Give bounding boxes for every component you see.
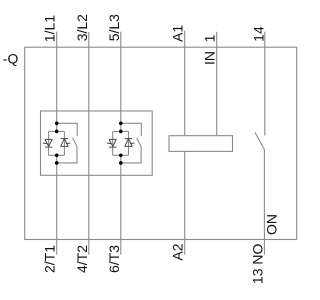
device outline box -Q — [25, 47, 297, 239]
node dot phase1 top — [55, 122, 59, 126]
wire 14 — [264, 32, 266, 136]
wire 13 — [263, 150, 265, 255]
phase3 bypass contact blade — [137, 138, 141, 147]
thyristor V3 (phase3 left, down) — [107, 139, 117, 147]
svg-text:IN: IN — [202, 51, 218, 65]
svg-text:-Q: -Q — [3, 50, 19, 66]
phase1 left branch wire — [48, 131, 50, 155]
node dot phase3 rect bottom — [119, 154, 123, 158]
phase3 bypass wire upper — [121, 123, 142, 136]
svg-text:13 NO: 13 NO — [249, 243, 265, 284]
svg-text:A1: A1 — [170, 25, 186, 42]
phase1 right branch wire — [63, 131, 65, 155]
phase3 left branch wire — [112, 131, 114, 155]
phase1 bypass wire lower — [57, 147, 77, 163]
wire A1 — [184, 31, 186, 136]
svg-text:6/T3: 6/T3 — [106, 245, 122, 273]
node dot phase3 rect top — [119, 130, 123, 134]
thyristor V2 (phase1 right, up) — [61, 139, 71, 147]
wire L2 — [88, 32, 90, 255]
phase1 bypass wire upper — [57, 123, 77, 136]
svg-text:ON: ON — [264, 214, 280, 235]
node dot phase1 rect bottom — [55, 154, 59, 158]
phase3 thyristor top bar — [113, 130, 129, 132]
svg-text:14: 14 — [251, 26, 267, 42]
node dot phase3 top — [119, 122, 123, 126]
node dot phase1 bottom — [55, 161, 59, 165]
contact ON blade (13-14) — [255, 132, 264, 149]
wire L3 lower — [120, 155, 122, 254]
coil U1 (control unit) — [169, 136, 233, 152]
thyristor V4 (phase3 right, up) — [125, 139, 135, 147]
phase1 thyristor top bar — [49, 130, 65, 132]
phase1 bypass contact blade — [73, 138, 77, 147]
thyristor module box — [41, 111, 153, 175]
wire A2 — [184, 151, 186, 254]
svg-text:4/T2: 4/T2 — [74, 245, 90, 273]
phase3 thyristor bottom bar — [113, 154, 129, 156]
svg-text:2/T1: 2/T1 — [42, 245, 58, 273]
phase1 thyristor bottom bar — [49, 154, 65, 156]
phase3 bypass wire lower — [121, 147, 141, 163]
wire L1 lower — [56, 155, 58, 254]
svg-text:1/L1: 1/L1 — [42, 15, 58, 42]
wire L1 upper — [56, 32, 58, 132]
svg-text:A2: A2 — [170, 243, 186, 260]
thyristor V1 (phase1 left, down) — [43, 139, 53, 147]
wire L3 upper — [120, 32, 122, 132]
wire IN — [216, 32, 218, 136]
node dot phase3 bottom — [119, 161, 123, 165]
node dot phase1 rect top — [55, 130, 59, 134]
svg-text:3/L2: 3/L2 — [74, 14, 90, 41]
phase3 right branch wire — [128, 131, 130, 155]
svg-text:5/L3: 5/L3 — [106, 14, 122, 41]
svg-text:1: 1 — [202, 34, 218, 42]
